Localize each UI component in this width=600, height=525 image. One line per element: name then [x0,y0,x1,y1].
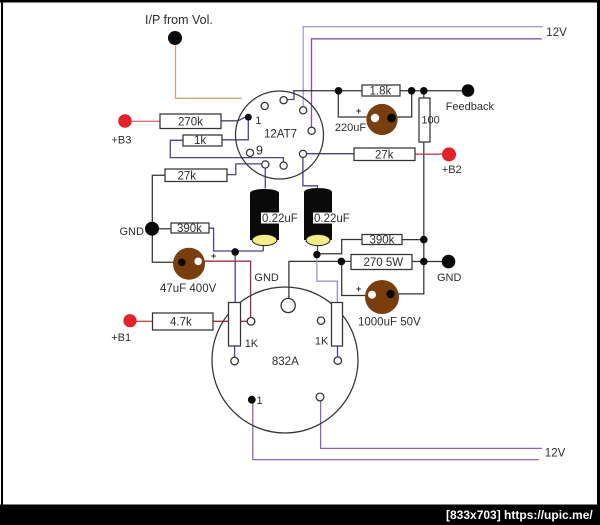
resistor 1k [183,135,222,147]
svg-text:12AT7: 12AT7 [264,129,297,141]
border right [597,0,600,505]
svg-text:1.8k: 1.8k [370,86,392,98]
resistor 1K left (vertical, 832A) [229,303,259,351]
tube 12AT7 envelope [236,91,324,179]
resistor 270k [160,114,221,129]
junction at 100 top [420,87,428,95]
tube 832A pin 1 (filled) [248,396,256,404]
svg-text:+B2: +B2 [442,164,462,176]
svg-text:1: 1 [257,395,263,407]
node Feedback terminal dot [462,84,475,97]
node GND right terminal dot [442,255,456,269]
wire: GND left from 27k [152,175,165,222]
svg-text:9: 9 [256,144,263,158]
node +B3 terminal (red) [118,114,132,128]
wire: junction2 down to 1000uF white dot [342,261,369,295]
capacitor C1 0.22uF left (film, black cylinder) [250,189,298,246]
junction at 1.8k right [408,87,416,95]
svg-text:270k: 270k [178,117,203,129]
wire: 220uF left branch [338,91,371,117]
tube 12AT7 pin 2 [261,102,268,109]
tube 12AT7 pin 6 [299,150,306,157]
wire: pin 3 up to feedback row [287,91,294,100]
wire: 390k left link down to cap junction [320,240,362,254]
junction at 270 5W left [338,258,346,266]
tube 832A top pin (big) [281,298,295,312]
junction at 270 5W right [420,258,428,266]
wire: red +B3 stub [132,120,160,122]
wire: right 0.22uF bottom stub [317,246,319,251]
svg-text:27k: 27k [178,171,197,183]
wire: junction down to 1000uF black dot [395,262,424,294]
tube 832A heater pin right [316,393,324,401]
node GND left terminal dot [145,222,159,236]
tube 12AT7 pin 4 [300,107,307,114]
junction below right 0.22uF [313,251,320,258]
wire: 390k right to junction [402,239,424,241]
svg-text:12V: 12V [545,448,566,460]
wire: left 1K bottom stub [234,346,236,357]
wire: I/P from Vol. tan wire [176,45,242,98]
wire: maroon 4.7k to 832A pin [213,320,247,322]
svg-text:+: + [211,251,216,261]
svg-text:+: + [356,106,361,116]
resistor 4.7k [153,313,214,330]
svg-text:Feedback: Feedback [446,101,495,113]
resistor 270 5W [351,255,412,270]
wire: 270 5W left to 832A GND drop [289,261,351,298]
resistor 390k right [362,235,402,247]
svg-text:GND: GND [120,226,145,238]
wire: 270k to 12AT7 pin 1 [221,117,245,121]
wire: 12V top rail 1 (light purple) to 12AT7 pin 4 [303,27,543,107]
svg-text:GND: GND [437,272,462,284]
wire: GND left dot down to 47uF negative [152,236,181,263]
tube 832A left grid pin [247,318,255,326]
tube 832A right grid pin [317,317,324,324]
wire: maroon 47uF plus rail to 832A pin [203,261,251,317]
svg-text:1K: 1K [245,338,259,350]
wire: red +B2 stub [415,153,443,155]
capacitor C2 0.22uF right (film, black cylinder) [304,188,350,246]
border top [0,0,600,3]
capacitor C4 47uF 400V electrolytic (brown) [160,248,217,295]
svg-text:12V: 12V [546,27,567,39]
wire: GND left dot to 390k [159,228,171,230]
node +B1 terminal (red) [123,314,136,327]
wire: 390k left box to cap junction dot [209,228,263,251]
wire: 220uF right branch [396,91,412,117]
resistor 1.8k [362,85,400,98]
wire: 12V top rail 2 (dark purple) to 12AT7 pin 5 [312,39,542,127]
svg-text:I/P from Vol.: I/P from Vol. [145,13,213,27]
junction at 390k right row [420,236,428,244]
svg-text:390k: 390k [370,235,395,247]
tube 12AT7 pin 5 [308,127,315,134]
wire: navy interconnects [170,91,354,357]
svg-text:390k: 390k [177,223,202,235]
wire: red +B1 stub [137,320,153,322]
svg-text:832A: 832A [272,356,299,368]
svg-text:1K: 1K [315,336,329,348]
wire: pin 6 to 27k right [307,153,355,155]
node I/P terminal dot [168,31,182,45]
wire: pin 8 down to left 0.22uF [264,169,266,189]
wire: 100 resistor down to 390k row [423,142,425,240]
wire: right 1K bottom stub [337,346,339,357]
junction at 1.8k left [335,87,343,95]
wire: 270 5W right to GND [412,261,442,263]
tube 832A left cathode pin [231,357,239,365]
resistor 1K right (vertical, 832A) [315,303,343,348]
svg-text:[833x703] https://upic.me/: [833x703] https://upic.me/ [446,508,593,522]
wire: 27k left to 12AT7 pin 8 [227,164,261,175]
tube 832A right cathode pin [334,357,341,364]
svg-text:GND: GND [254,272,279,284]
wire: 1k left to 12AT7 pin 7 [170,140,283,162]
wire: pin 6 down to right 0.22uF [303,158,318,190]
wire: bottom 12V purple wire from 832A right pin [321,401,542,448]
capacitor C5 1000uF 50V electrolytic (brown) [356,280,421,329]
svg-text:0.22uF: 0.22uF [314,213,350,225]
svg-text:0.22uF: 0.22uF [262,213,298,225]
svg-text:+B3: +B3 [112,135,132,147]
capacitor C3 220uF electrolytic (brown) [335,104,398,135]
svg-text:1k: 1k [194,135,206,147]
tube 12AT7 pin 9 [246,149,253,156]
svg-text:1: 1 [255,115,261,127]
wire: pin 1 down to 1k [222,121,248,140]
bottom watermark bar [0,505,600,525]
wire: left 0.22uF bottom stub [262,246,264,251]
junction below left 0.22uF [231,248,239,256]
svg-text:270 5W: 270 5W [364,257,404,269]
tube 12AT7 pin 1 (filled) [245,114,252,121]
tube 832A envelope [212,287,358,433]
wire: junction down to left 1K of 832A [234,252,236,303]
tube 12AT7 pin 7 [280,162,287,169]
border left [1,0,3,505]
wire: feedback row (1.8k row) horizontal [152,91,461,299]
svg-text:4.7k: 4.7k [170,317,192,329]
tube 12AT7 pin 8 [262,161,269,168]
node +B2 terminal (red) [442,147,456,161]
svg-text:1000uF 50V: 1000uF 50V [358,317,421,329]
svg-text:27k: 27k [375,150,394,162]
resistor 100 (vertical) [419,98,440,142]
svg-text:+: + [356,284,361,294]
resistor 27k left [165,169,227,183]
wire: lavender path right cap junction to right 1K [317,258,337,303]
wire: 100 resistor top stub [423,91,425,98]
svg-text:100: 100 [421,115,439,127]
resistor 27k right [354,148,415,162]
tube 12AT7 pin 3 [280,97,287,104]
svg-text:220uF: 220uF [335,122,366,134]
wire: junction down to 270 5W row [423,240,425,262]
svg-text:+B1: +B1 [111,332,131,344]
svg-text:47uF 400V: 47uF 400V [160,283,217,295]
wire: bottom purple wire from 832A pin 1 [253,403,539,459]
resistor 390k left [171,223,209,235]
